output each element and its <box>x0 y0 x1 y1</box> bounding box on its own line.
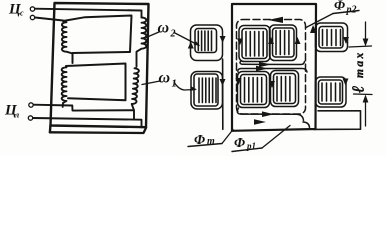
bottom flux line 2 with right arrow <box>303 122 310 128</box>
winding w1 coil (bottom window, right leg) <box>132 68 139 110</box>
leader from w2 to right cross-section with arrow <box>174 33 199 46</box>
dimension text l max (rotated) <box>349 50 368 93</box>
arrow on loop right (down) <box>220 79 226 86</box>
arrow on loop left (up) <box>188 42 194 49</box>
svg-text:2: 2 <box>170 29 176 40</box>
inner coil box bottom-right <box>274 74 296 104</box>
dimension top tick <box>349 46 372 47</box>
svg-text:ω: ω <box>159 70 171 87</box>
label Phi_p1 with underline and leader <box>234 136 256 151</box>
outside-right bottom winding box <box>319 80 343 104</box>
outside-left bottom winding box <box>194 74 218 106</box>
arrow on loop (down) <box>236 78 242 85</box>
label Ul (Цл) <box>4 103 19 120</box>
arrow on loop (down) <box>237 39 243 46</box>
leakage flux return vertical (left outside) <box>222 59 224 129</box>
svg-text:р2: р2 <box>346 5 357 16</box>
leakage loop around top-right box <box>270 25 297 61</box>
bottom window bottom edge <box>72 106 134 120</box>
wire terminal Ul-1 to bottom-left winding <box>34 104 73 107</box>
leakage loop around bottom-right box <box>271 71 299 107</box>
core second (lower) bottom line <box>50 128 146 133</box>
dimension l_max top arrow <box>365 22 367 40</box>
arrow on loop (up) <box>268 37 274 44</box>
outer flux path bottom-right <box>314 111 361 130</box>
leader from w2 to left coil <box>146 32 159 38</box>
leakage loop around outside-right top box <box>316 23 348 52</box>
arrow on loop (down) <box>269 81 275 88</box>
arrow on core right edge (up) <box>310 25 317 33</box>
svg-text:Φ: Φ <box>334 0 345 14</box>
winding w2 coil (top window, right leg) <box>137 18 147 67</box>
arrow on main flux top (pointing left) <box>268 17 283 23</box>
winding w2 coil (top window, left leg) <box>62 21 73 54</box>
top window of core <box>63 16 132 64</box>
terminal circle Ul-2 <box>28 116 32 120</box>
svg-text:max: max <box>354 50 366 78</box>
middle horizontal flux line 2 with right arrow <box>238 69 307 73</box>
svg-text:ω: ω <box>158 20 170 37</box>
svg-text:ℓ: ℓ <box>349 86 368 93</box>
arrow on loop right (down) <box>220 36 226 43</box>
wire terminal Ul-2 to core right side <box>33 118 142 127</box>
terminal circle Uc-2 <box>30 15 34 19</box>
terminal circle Uc-1 <box>30 7 34 11</box>
dimension l_max bottom arrow <box>365 101 367 126</box>
svg-text:с: с <box>20 9 24 18</box>
middle horizontal flux line 1 with right arrow <box>240 62 305 65</box>
leakage loop around top-left box <box>239 26 270 62</box>
inner coil box top-right <box>273 28 295 57</box>
leader from w1 to right cross-section with arrow <box>174 82 195 90</box>
leakage loop around outside-left top box <box>191 25 223 61</box>
label w2 <box>158 20 176 40</box>
core (right figure) rectangle <box>232 4 316 131</box>
core left edge lower stub <box>49 126 52 133</box>
core (left figure) outer rectangle <box>51 3 149 127</box>
main flux (dashed loop) <box>237 20 306 115</box>
bottom flux line 1 with right arrow <box>237 108 303 121</box>
arrow on loop right (down) <box>343 79 349 86</box>
arrow right of top-right box (up) <box>295 37 301 44</box>
label Uc (Цс) <box>8 2 24 18</box>
wire terminal Uc-1 to top-right winding <box>35 9 142 18</box>
label Phi_p2 with underline and leader <box>334 0 357 16</box>
leakage loop around outside-left bottom box <box>191 72 223 110</box>
leakage loop around outside-right bottom box <box>316 77 347 107</box>
wire terminal Uc-2 to top-left winding <box>35 18 63 21</box>
svg-text:Φ: Φ <box>234 136 245 151</box>
leakage loop around bottom-left box <box>238 72 270 108</box>
winding w1 coil (bottom window, left leg) <box>62 67 67 107</box>
label w1 <box>159 70 177 90</box>
arrow on loop right (down) <box>343 37 349 44</box>
terminal circle Ul-1 <box>29 103 33 107</box>
inner coil box top-left <box>242 29 267 59</box>
label Phi_m with underline and leader <box>194 133 215 148</box>
inner coil box bottom-left <box>241 75 267 105</box>
leader from w1 to left coil <box>142 81 160 85</box>
outside-right top winding box <box>319 27 343 49</box>
svg-text:л: л <box>14 111 19 120</box>
dimension bottom tick <box>354 93 373 96</box>
outside-left top winding box <box>195 29 217 53</box>
bottom window of core <box>66 64 126 101</box>
